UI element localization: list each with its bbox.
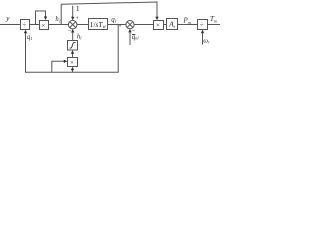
divider block 2 bbox=[198, 20, 208, 30]
svg-text:q1: q1 bbox=[111, 16, 117, 23]
svg-text:+: + bbox=[76, 16, 80, 22]
arrowheads bbox=[24, 17, 204, 71]
wire h1 multiplier1 to summer1 bbox=[49, 24, 69, 26]
wire output Tm bbox=[208, 24, 221, 26]
wire constant 1 stub bbox=[72, 6, 74, 17]
svg-text:h1: h1 bbox=[55, 16, 61, 24]
nonlinearity block f bbox=[68, 41, 78, 51]
wire squaring feedback loop over multiplier1 bbox=[36, 11, 46, 25]
svg-text:×: × bbox=[156, 22, 160, 30]
wire top line sloped bbox=[61, 2, 157, 17]
wire summer1 to integrator bbox=[77, 24, 88, 26]
wire q nl stub bbox=[129, 32, 131, 45]
svg-text:÷: ÷ bbox=[22, 20, 26, 29]
arrow into multiplier1 top bbox=[44, 17, 47, 21]
svg-text:×: × bbox=[42, 22, 46, 29]
wire q1 integrator to summer2 bbox=[108, 24, 127, 26]
arrow into summer2 bottom bbox=[128, 29, 131, 33]
svg-text:Pm: Pm bbox=[183, 18, 191, 25]
arrow into divider1 bottom bbox=[24, 30, 27, 34]
svg-text:y: y bbox=[5, 15, 10, 23]
svg-text:1: 1 bbox=[76, 4, 80, 13]
svg-text:qnl: qnl bbox=[132, 34, 140, 41]
multiplier block 3 bbox=[68, 58, 78, 67]
multiplier block 1 squaring bbox=[40, 21, 49, 30]
arrow into divider2 bottom bbox=[201, 30, 204, 34]
arrow into multiplier3 bottom bbox=[71, 67, 74, 71]
integrator block 1/sTw bbox=[89, 19, 108, 30]
svg-text:q1: q1 bbox=[27, 34, 33, 41]
block symbols bbox=[22, 20, 204, 66]
wire bus riser to multiplier3 bottom bbox=[72, 70, 74, 72]
svg-text:ωr: ωr bbox=[203, 37, 210, 44]
overbar q nl bbox=[132, 33, 135, 35]
arrow into summer1 top bbox=[71, 17, 74, 21]
wire multiplier2 to At bbox=[164, 24, 167, 26]
svg-text:−: − bbox=[68, 28, 72, 35]
wire At to divider2 bbox=[178, 24, 198, 26]
wire summer2 to multiplier2 bbox=[134, 24, 153, 26]
wire omega stub bbox=[202, 33, 204, 44]
arrow into multiplier2 top bbox=[155, 17, 158, 21]
summer 1 circle bbox=[68, 20, 77, 29]
wire input y bbox=[0, 24, 21, 26]
wire h1 tap up to top line bbox=[60, 4, 62, 24]
arrow into summer1 bottom bbox=[71, 29, 74, 33]
divider block 1 bbox=[21, 20, 30, 30]
wire multiplier3 to f block bbox=[72, 54, 74, 58]
wire q1 drop, bottom bus, riser to divider1 bbox=[26, 25, 119, 73]
arrow into multiplier3 left bbox=[64, 60, 68, 63]
wire f block to summer1 bottom bbox=[72, 32, 74, 40]
arrow into f block bottom bbox=[71, 50, 74, 54]
summer 2 circle bbox=[126, 21, 134, 29]
wire bus elbow to multiplier3 left bbox=[52, 61, 64, 72]
svg-text:Tm: Tm bbox=[210, 15, 217, 23]
gain block At bbox=[167, 19, 178, 30]
svg-text:hl: hl bbox=[77, 33, 82, 40]
multiplier block 2 bbox=[154, 21, 164, 30]
saturation curve in f block bbox=[70, 42, 76, 48]
svg-text:÷: ÷ bbox=[200, 20, 204, 29]
svg-text:×: × bbox=[70, 59, 74, 66]
wire divider1 to multiplier1 bbox=[30, 24, 40, 26]
